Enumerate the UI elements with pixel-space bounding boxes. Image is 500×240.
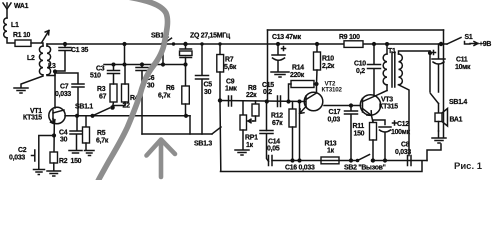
svg-text:+9В: +9В [479, 41, 491, 48]
switch SB1.3 [142, 116, 221, 148]
svg-text:C9: C9 [226, 79, 235, 86]
capacitor C16 [269, 156, 315, 172]
svg-text:C12: C12 [397, 121, 409, 128]
svg-text:67: 67 [99, 94, 107, 101]
capacitor C15 [262, 82, 281, 107]
svg-text:0,03: 0,03 [328, 117, 341, 124]
svg-text:КТ3102: КТ3102 [322, 87, 343, 94]
wire L3 top to bus [46, 44, 48, 46]
speaker BA1 [435, 109, 463, 132]
switch SB1.1 [75, 104, 115, 116]
resistor R13 [321, 141, 339, 164]
node C14 [265, 99, 269, 103]
svg-text:0,2: 0,2 [356, 68, 365, 75]
oscillator lower bus [104, 44, 188, 67]
capacitor C9 [225, 79, 237, 107]
capacitor C2 [9, 136, 54, 175]
node VT2 collector [314, 82, 318, 86]
resistor R1 [13, 32, 31, 46]
transformer T1 [383, 42, 430, 156]
switch SB2 [344, 155, 386, 172]
capacitor C17 [328, 103, 358, 162]
bottom signal bus [272, 158, 427, 162]
resistor R7 [217, 42, 237, 100]
svg-text:S1: S1 [465, 34, 473, 41]
svg-text:R1 10: R1 10 [13, 32, 31, 39]
svg-text:R13: R13 [325, 141, 337, 148]
antenna WA1 [3, 3, 29, 18]
svg-text:L1: L1 [11, 22, 19, 29]
node (L3/C1/VT1 base) [53, 69, 57, 73]
potentiometer RP1 [235, 101, 258, 155]
resistor R8 [246, 85, 259, 121]
wire to ground rail [219, 101, 222, 171]
transistor VT1 [23, 107, 65, 152]
svg-text:C17: C17 [329, 109, 341, 116]
svg-text:R12: R12 [271, 113, 283, 120]
ground (C4/R5) [69, 151, 94, 156]
resistor R11 [353, 123, 377, 163]
transformer winding L2 [27, 46, 43, 75]
capacitor C4 [59, 116, 83, 150]
switch SB1.4 [431, 94, 468, 114]
transistor VT3 [360, 91, 398, 123]
svg-text:R10: R10 [322, 56, 334, 63]
svg-text:0,033: 0,033 [55, 91, 71, 98]
capacitor C10 [354, 42, 381, 95]
wire base VT1 [54, 72, 56, 109]
resistor R14 [286, 65, 316, 104]
svg-text:0,2: 0,2 [263, 89, 272, 96]
transformer winding L3 [47, 46, 56, 75]
svg-text:SB2 "Вызов": SB2 "Вызов" [344, 165, 386, 172]
svg-text:1мк: 1мк [225, 86, 237, 93]
resistor R6 [158, 65, 189, 118]
audio input bus [220, 101, 305, 102]
resistor R3 [97, 84, 117, 108]
resistor R12 [271, 102, 296, 163]
ground rail bottom [221, 162, 423, 172]
emitter wires VT3 [373, 120, 385, 125]
svg-text:C14: C14 [268, 139, 280, 146]
module frame top [268, 29, 444, 31]
frame jog to ground chain [427, 144, 441, 161]
emitter wire VT2/base VT3 [324, 105, 361, 107]
svg-text:C5: C5 [204, 82, 213, 89]
svg-text:R3: R3 [97, 86, 106, 93]
capacitor C5 [196, 42, 213, 134]
svg-text:5,6к: 5,6к [224, 64, 237, 71]
svg-text:150: 150 [71, 158, 82, 165]
svg-text:R6: R6 [166, 85, 175, 92]
svg-text:C3: C3 [96, 66, 105, 73]
resistor R4 [113, 65, 139, 110]
core adjust arrow [42, 31, 49, 43]
svg-text:RP1: RP1 [245, 135, 258, 142]
svg-text:R5: R5 [97, 130, 106, 137]
svg-text:22: 22 [123, 103, 131, 110]
svg-text:C2: C2 [18, 147, 27, 154]
crystal ZQ [180, 33, 231, 65]
capacitor C12 [379, 121, 411, 163]
capacitor C7 [55, 73, 84, 116]
svg-text:C13 47мк: C13 47мк [272, 34, 302, 41]
svg-text:ZQ 27,15МГц: ZQ 27,15МГц [190, 33, 231, 40]
wire L3 bottom [47, 72, 55, 76]
wire [7, 38, 15, 43]
svg-text:C11: C11 [456, 57, 468, 64]
svg-text:SB1.3: SB1.3 [194, 141, 212, 148]
svg-text:6,7к: 6,7к [96, 138, 109, 145]
resistor R2 [47, 152, 82, 176]
switch S1 [439, 34, 473, 46]
svg-text:SB1.1: SB1.1 [75, 104, 93, 111]
svg-text:R11: R11 [353, 123, 365, 130]
module frame left / C14 stem [267, 30, 268, 131]
capacitor C14 [260, 131, 280, 162]
svg-text:30: 30 [60, 137, 68, 144]
svg-text:22к: 22к [246, 92, 257, 99]
svg-text:220к: 220к [290, 72, 305, 79]
inductor L1 [4, 18, 19, 38]
capacitor C11 [432, 44, 472, 92]
hand-drawn gray arrow [147, 140, 176, 178]
capacitor C6 [136, 65, 155, 135]
node (osc output) [218, 98, 222, 102]
svg-text:150: 150 [354, 131, 365, 138]
svg-text:0,033: 0,033 [9, 155, 25, 162]
resistor R5 [83, 116, 109, 150]
ground (L2) [14, 76, 43, 93]
resistor R10 [314, 42, 335, 84]
svg-text:L2: L2 [27, 55, 35, 62]
svg-text:C4: C4 [59, 130, 68, 137]
capacitor C3 [90, 65, 120, 85]
module frame right [443, 30, 445, 137]
+9V arrow [470, 41, 491, 48]
svg-text:67к: 67к [272, 120, 283, 127]
node C4 tap [75, 114, 79, 118]
main supply bus [47, 43, 447, 45]
svg-text:VT3: VT3 [381, 97, 393, 104]
svg-text:C7: C7 [60, 84, 69, 91]
svg-text:ВА1: ВА1 [450, 117, 463, 124]
svg-text:1к: 1к [327, 148, 335, 155]
ground (BA1/C11) [432, 131, 446, 143]
svg-text:С16 0,033: С16 0,033 [285, 165, 315, 172]
svg-text:Рис. 1: Рис. 1 [454, 161, 483, 172]
svg-text:КТ315: КТ315 [379, 104, 398, 111]
svg-text:R14: R14 [292, 65, 304, 72]
node emitter VT1 [52, 133, 56, 137]
svg-text:2,2к: 2,2к [322, 63, 335, 70]
svg-text:10мк: 10мк [455, 64, 471, 71]
svg-text:L3: L3 [48, 63, 56, 70]
svg-text:SB1.4: SB1.4 [449, 99, 467, 106]
svg-text:C15: C15 [262, 82, 274, 89]
svg-text:WA1: WA1 [14, 3, 29, 10]
resistor R9 [339, 34, 363, 47]
svg-text:R7: R7 [225, 57, 234, 64]
collector bus VT1 [65, 115, 190, 117]
svg-text:6,7к: 6,7к [158, 93, 171, 100]
hand-drawn gray curve [98, 0, 168, 181]
svg-text:T1: T1 [388, 48, 396, 55]
capacitor C13 [271, 34, 302, 77]
capacitor C1 [55, 42, 89, 71]
svg-text:30: 30 [204, 89, 212, 96]
capacitor C8 [395, 142, 411, 166]
svg-text:C10: C10 [354, 61, 366, 68]
svg-text:R9 100: R9 100 [339, 34, 360, 41]
transistor VT2 [298, 81, 343, 161]
svg-text:1к: 1к [246, 142, 254, 149]
svg-text:30: 30 [147, 83, 155, 90]
svg-text:100мк: 100мк [391, 129, 411, 136]
svg-text:R2: R2 [59, 158, 68, 165]
node R5 tap [90, 114, 94, 118]
svg-text:510: 510 [90, 73, 101, 80]
svg-text:0,05: 0,05 [267, 146, 280, 153]
wire T1 to SB1.4 [428, 51, 432, 92]
svg-text:КТ315: КТ315 [23, 115, 42, 122]
wire [31, 43, 43, 46]
svg-text:R8: R8 [248, 85, 257, 92]
svg-text:C1 35: C1 35 [71, 47, 89, 54]
switch SB1.2 [151, 33, 175, 47]
bias bus node [112, 42, 127, 67]
